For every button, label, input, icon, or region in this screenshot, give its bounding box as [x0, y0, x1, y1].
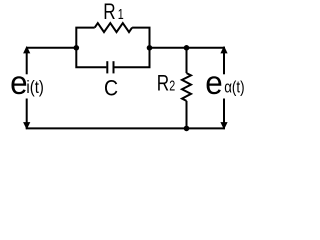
wire ea(t) arrow upper segment [223, 48, 225, 75]
svg-text:α(t): α(t) [224, 78, 244, 97]
arrowhead ea(t) down [220, 122, 227, 130]
wire ea(t) arrow lower segment [223, 99, 225, 129]
svg-text:R: R [157, 71, 169, 96]
wire R1 branch right lead and riser [132, 28, 149, 48]
wire R2 bottom lead [186, 101, 188, 128]
node C: R2 top junction [184, 45, 190, 51]
wire top-right rail [150, 47, 226, 49]
svg-text:2: 2 [169, 77, 175, 94]
svg-text:e: e [205, 63, 222, 101]
wire bottom rail [26, 127, 225, 129]
wire R2 top lead [186, 48, 188, 73]
resistor R2 [182, 73, 191, 101]
wire C branch left riser and lead [76, 48, 106, 68]
wire ei(t) arrow lower segment [26, 99, 28, 129]
svg-text:C: C [104, 76, 118, 100]
capacitor C right plate [113, 61, 115, 73]
node B: right RC junction [147, 45, 153, 51]
wire top-left rail [27, 47, 77, 49]
node A: left RC junction [74, 45, 80, 51]
wire R1 branch left riser and lead [76, 28, 94, 48]
svg-text:1: 1 [118, 5, 124, 22]
arrowhead ei(t) up [23, 46, 30, 54]
capacitor C left plate [106, 61, 108, 73]
arrowhead ea(t) up [220, 46, 227, 54]
wire ei(t) arrow upper segment [26, 48, 28, 75]
svg-text:R: R [103, 0, 115, 24]
resistor R1 [95, 23, 132, 32]
svg-text:i(t): i(t) [26, 78, 43, 97]
arrowhead ei(t) down [23, 122, 30, 130]
node D: R2 bottom junction [184, 126, 190, 132]
svg-text:e: e [10, 63, 27, 101]
wire C branch right lead and riser [114, 48, 149, 68]
